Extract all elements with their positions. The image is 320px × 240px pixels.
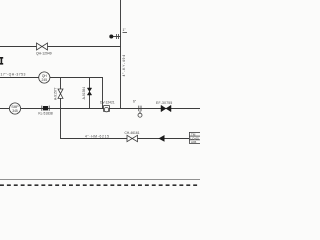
instrument bubble QH 245 — [39, 72, 50, 83]
wire: branch x=89.5 from y=77.5 to y=108.5 — [89, 78, 91, 109]
svg-text:A06: A06 — [191, 140, 197, 144]
inline instrument DV-12421 (square with circle) — [100, 100, 115, 111]
valve EF-30755 (closed/filled bowtie) — [156, 101, 172, 112]
svg-text:DV-12421: DV-12421 — [100, 100, 115, 104]
valve KL-51838 (closed with flanges) — [38, 106, 52, 116]
instrument bubble SMP 345 — [9, 103, 20, 114]
svg-text:SMP: SMP — [11, 105, 19, 109]
valve A-91577 (vertical bowtie, open) — [54, 87, 63, 100]
svg-text:A-91577: A-91577 — [54, 87, 58, 100]
wire: vertical header line x=120.5 — [120, 0, 122, 109]
wire: drop from x=60.5 down to blowdown line y=138.5 — [61, 109, 190, 139]
orifice flange pair with drain (6") — [133, 99, 142, 117]
vent stub with blind flange — [109, 34, 120, 39]
svg-text:4"-HM-6215: 4"-HM-6215 — [85, 135, 110, 139]
wire: line QH-3753 y=77.5 with corner down at x=102.5 — [0, 78, 103, 109]
valve A-91594 (vertical bowtie, closed/filled) — [82, 87, 92, 100]
label 1" on vent stub — [123, 28, 128, 33]
svg-text:A-91594: A-91594 — [82, 87, 86, 100]
svg-text:245: 245 — [42, 78, 48, 82]
svg-text:QH: QH — [42, 74, 48, 78]
wire: top header line y=46.5 — [0, 46, 121, 48]
valve QH-12949 — [36, 43, 52, 56]
wire: bottom header line y=108.5 — [0, 108, 200, 110]
off-page reference box (clipped at right edge) — [189, 132, 200, 144]
svg-text:QH-12949: QH-12949 — [36, 52, 52, 56]
flow arrow (filled, pointing left) — [159, 135, 165, 142]
wire: branch x=60.5 from y=77.5 to y=108.5 — [60, 78, 62, 109]
battery limit dashed line — [0, 184, 200, 186]
valve CH-46161 — [125, 131, 140, 142]
svg-text:345: 345 — [12, 109, 18, 113]
svg-text:KL-51838: KL-51838 — [38, 111, 52, 115]
svg-text:4"-KY-494: 4"-KY-494 — [122, 54, 126, 76]
svg-text:EF-30755: EF-30755 — [156, 101, 172, 105]
off-page connector (clipped at left edge) — [0, 57, 3, 65]
match line (thin solid) — [0, 179, 200, 181]
svg-text:CH-46161: CH-46161 — [125, 131, 140, 135]
svg-text:17"-QH-3753: 17"-QH-3753 — [1, 72, 26, 76]
